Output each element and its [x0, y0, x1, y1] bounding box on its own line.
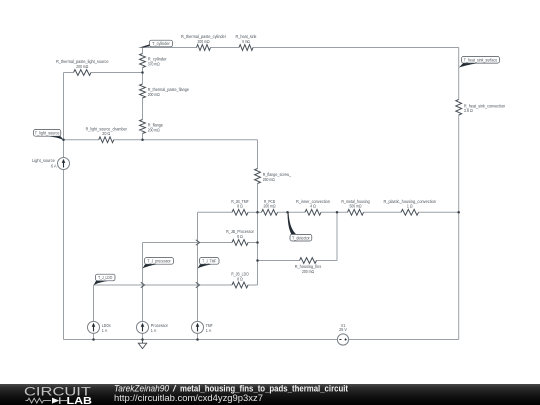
node detector [286, 211, 289, 214]
wire detector vertical [336, 212, 338, 260]
svg-text:8 Ω: 8 Ω [237, 204, 243, 209]
flag T_J_processor [143, 258, 174, 269]
label R_JB_Processor value 8 Ω [226, 229, 254, 239]
wire hop row C over processor vertical [141, 282, 145, 287]
label R_JB_TMF value 8 Ω [231, 199, 249, 209]
label TMF 1 A [206, 323, 213, 333]
svg-text:200 mΩ: 200 mΩ [264, 204, 276, 209]
label R_housing_fins value 200 mΩ [295, 264, 322, 274]
svg-text:3.8 Ω: 3.8 Ω [464, 108, 473, 113]
resistor R_heat_sink_convection [456, 100, 462, 116]
current source Light_source [58, 158, 70, 170]
resistor R_PCB [262, 209, 278, 215]
label R_thermal_paste_flange value 200 mΩ [148, 87, 190, 97]
wire processor vertical [142, 243, 144, 340]
node light source [62, 139, 65, 142]
flag T_J_LDO [94, 274, 116, 285]
resistor R_housing_fins [300, 258, 317, 264]
resistor R_light_source_chamber [99, 137, 114, 143]
label R_flange value 200 mΩ [148, 123, 164, 133]
wire top rail [143, 47, 459, 49]
svg-text:1 Ω: 1 Ω [407, 204, 413, 209]
node fins top [336, 211, 339, 214]
footer url text [114, 393, 263, 403]
flag T_cylinder [138, 40, 173, 48]
svg-text:http://circuitlab.com/cxd4yzg9: http://circuitlab.com/cxd4yzg9p3xz7 [114, 393, 263, 403]
svg-text:1 A: 1 A [151, 328, 157, 333]
flag T_light_source [34, 130, 64, 141]
label R_metal_housing value 500 mΩ [341, 199, 370, 209]
wire chamber row [64, 139, 258, 141]
label V1 25 V [339, 323, 347, 332]
label R_inner_convection value 4 Ω [296, 199, 330, 209]
svg-text:6 A: 6 A [51, 164, 57, 169]
label R_heat_sink_convection value 3.8 Ω [464, 103, 506, 113]
wire left rail [63, 73, 65, 340]
wire TMF vertical [197, 212, 199, 339]
svg-text:Light_source: Light_source [32, 158, 55, 163]
svg-text:200 mΩ: 200 mΩ [302, 269, 314, 274]
resistor R_plastic_housing_convection [401, 209, 419, 215]
node heat sink row A [457, 211, 460, 214]
resistor R_cylinder [140, 54, 146, 68]
resistor R_thermal_paste_cylinder [197, 45, 211, 51]
current source TMF [192, 321, 204, 333]
resistor R_metal_housing [348, 209, 364, 215]
label LDOs 1 A [102, 323, 111, 333]
node TMF bottom [196, 338, 199, 341]
wire bottom rail [64, 339, 459, 341]
svg-text:T_J_LDO: T_J_LDO [98, 275, 113, 280]
footer bar [0, 384, 540, 405]
wire thermal paste light source row [64, 72, 143, 74]
current source LDOs [88, 321, 100, 333]
svg-text:T_light_source: T_light_source [35, 131, 60, 136]
ground [138, 340, 146, 349]
resistor R_flange_screw_ [255, 169, 261, 184]
svg-text:1 A: 1 A [102, 328, 108, 333]
resistor R_thermal_paste_flange [140, 84, 146, 98]
flag T_J_TMF [198, 258, 220, 269]
wire hop row C over TMF vertical [196, 282, 200, 287]
resistor R_JB_TMF [232, 209, 248, 215]
svg-text:8 mΩ: 8 mΩ [242, 39, 250, 44]
wire hop row B over TMF vertical [196, 240, 200, 245]
wire row B [143, 242, 258, 244]
svg-text:4 Ω: 4 Ω [310, 204, 316, 209]
resistor R_heat_sink [239, 45, 253, 51]
node processor bottom [141, 338, 144, 341]
label R_light_source_chamber value 20 Ω [86, 126, 128, 136]
resistor R_inner_convection [305, 209, 321, 215]
svg-text:TarekZeinah90 / metal_housing_: TarekZeinah90 / metal_housing_fins_to_pa… [114, 384, 348, 394]
CircuitLab logo [24, 384, 92, 405]
label R_thermal_paste_cylinder value 200 mΩ [181, 34, 226, 44]
wire right rail [458, 48, 460, 340]
svg-text:T_heat_sink_surface: T_heat_sink_surface [464, 57, 498, 62]
svg-text:200 mΩ: 200 mΩ [198, 39, 210, 44]
node screw row B [256, 241, 259, 244]
node screw row A [256, 211, 259, 214]
label Light_source 6 A [32, 158, 56, 168]
svg-text:1 A: 1 A [206, 328, 212, 333]
flag T_detector [288, 213, 312, 242]
label R_thermal_paste_light_source value 200 mΩ [56, 59, 109, 69]
svg-text:200 mΩ: 200 mΩ [76, 64, 88, 69]
footer title text [114, 384, 348, 394]
node screw fins [256, 259, 259, 262]
resistor R_thermal_paste_light_source [74, 70, 92, 76]
node flange bottom junction [141, 139, 144, 142]
wire cylinder rail [142, 48, 144, 140]
resistor R_flange [140, 120, 146, 134]
resistor R_JB_LDO [232, 282, 248, 288]
label R_heat_sink value 8 mΩ [236, 34, 258, 44]
svg-text:8 Ω: 8 Ω [237, 276, 243, 281]
svg-text:260 mΩ: 260 mΩ [263, 177, 275, 182]
label R_plastic_housing_convection value 1 Ω [384, 199, 437, 209]
flag T_heat_sink_surface [459, 57, 500, 68]
voltage source V1 [337, 334, 348, 345]
svg-text:25 V: 25 V [339, 327, 347, 332]
svg-text:T_J_processor: T_J_processor [147, 259, 171, 264]
svg-text:T_cylinder: T_cylinder [152, 41, 170, 46]
label Processor 1 A [151, 323, 169, 333]
svg-text:200 mΩ: 200 mΩ [148, 127, 160, 132]
svg-text:370 mΩ: 370 mΩ [148, 61, 160, 66]
node cylinder paste junction [141, 71, 144, 74]
svg-text:200 mΩ: 200 mΩ [148, 92, 160, 97]
svg-text:LAB: LAB [67, 396, 93, 405]
wire housing fins row [258, 260, 338, 262]
wire row A [198, 211, 459, 213]
wire LDO vertical [93, 285, 95, 340]
svg-text:T_detector: T_detector [292, 235, 310, 240]
resistor R_JB_Processor [232, 240, 248, 246]
label R_PCB value 200 mΩ [264, 199, 276, 209]
svg-text:500 mΩ: 500 mΩ [350, 204, 362, 209]
svg-text:20 Ω: 20 Ω [102, 131, 110, 136]
wire row C [94, 284, 258, 286]
current source Processor [137, 321, 149, 333]
svg-text:8 Ω: 8 Ω [237, 234, 243, 239]
label R_cylinder value 370 mΩ [148, 57, 167, 67]
wire flange screw rail [257, 140, 259, 285]
node LDO bottom [92, 338, 95, 341]
label R_flange_screw_ value 260 mΩ [263, 172, 292, 182]
svg-text:T_J_TMF: T_J_TMF [202, 259, 217, 264]
label R_JB_LDO value 8 Ω [231, 272, 249, 282]
